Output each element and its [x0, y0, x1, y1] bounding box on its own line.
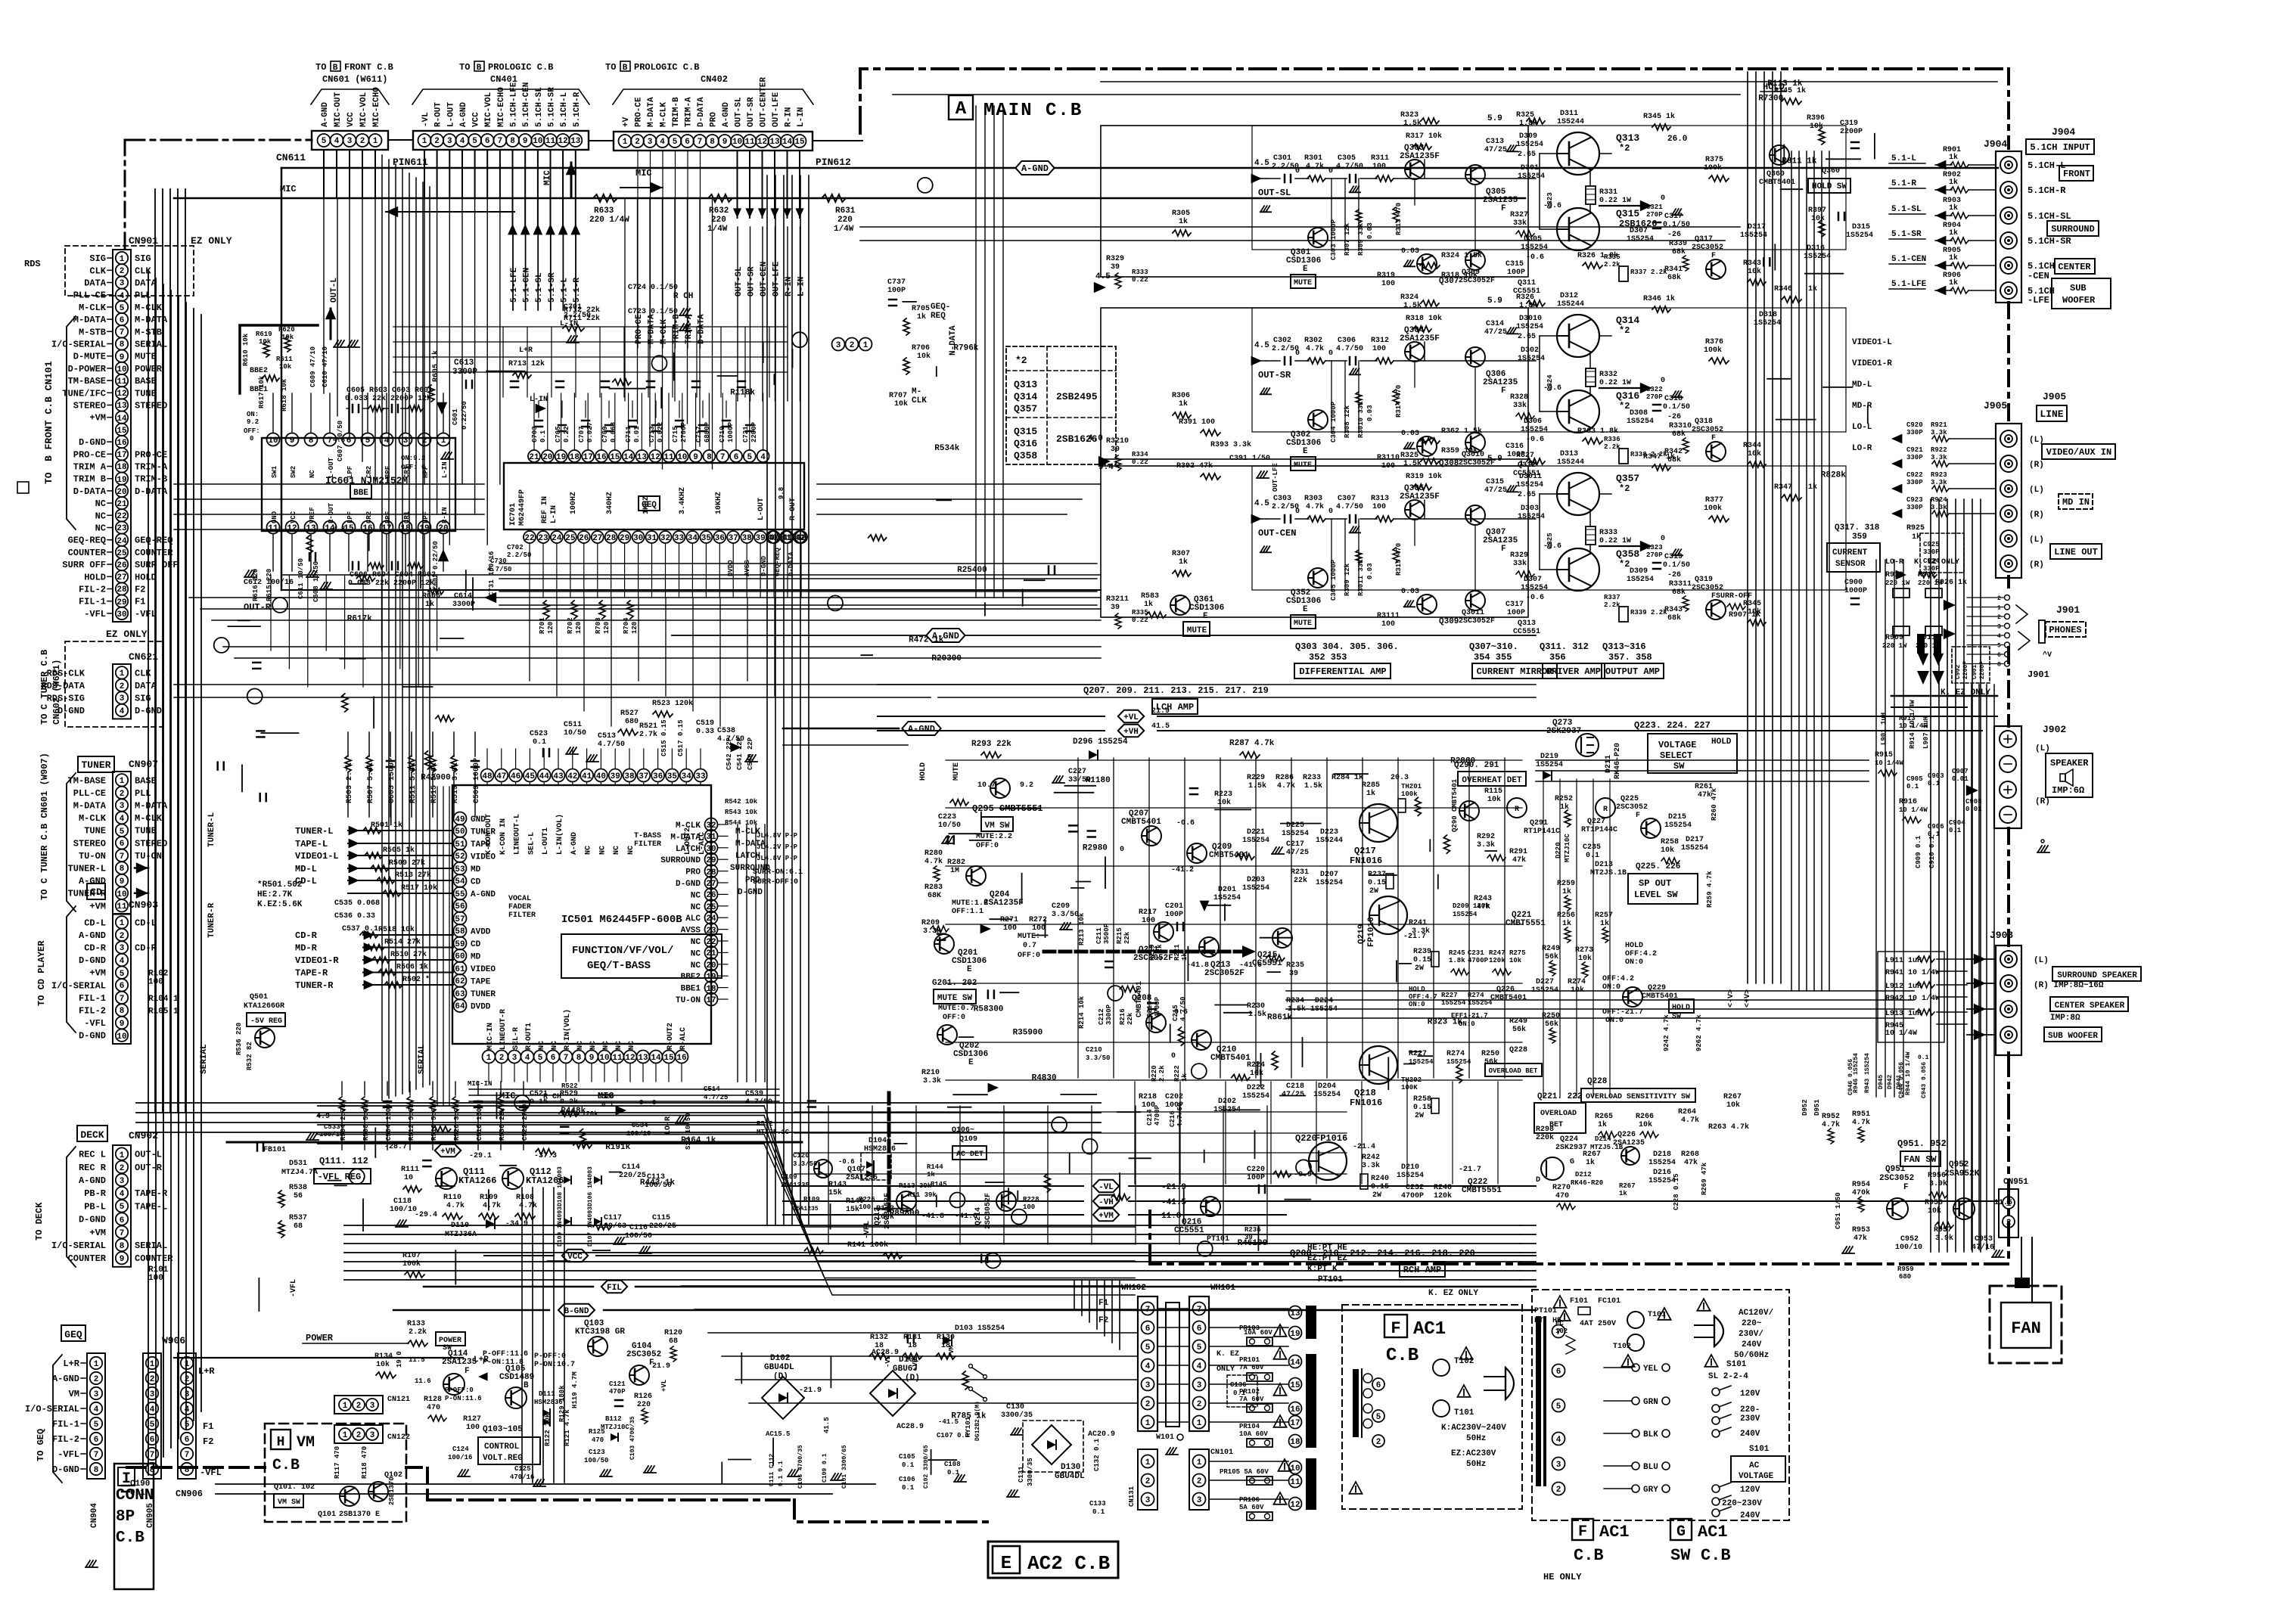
transistor Q216 [1201, 1197, 1220, 1216]
svg-text:R323: R323 [1400, 111, 1418, 120]
svg-text:CD-R: CD-R [135, 943, 157, 954]
svg-text:10 1/4W: 10 1/4W [1875, 759, 1903, 767]
svg-text:PROLOGIC C.B: PROLOGIC C.B [488, 62, 553, 73]
svg-text:Q315: Q315 [1014, 426, 1037, 437]
svg-text:41.5: 41.5 [823, 1417, 831, 1433]
svg-text:100k: 100k [1704, 504, 1722, 513]
svg-text:5.9: 5.9 [1487, 114, 1502, 123]
svg-text:R713 12k: R713 12k [508, 359, 545, 368]
svg-text:<-V>: <-V> [1727, 989, 1735, 1008]
cluster above IC601 resistors [240, 325, 318, 393]
svg-text:-LFE: -LFE [2028, 295, 2049, 306]
svg-text:D317: D317 [1748, 223, 1766, 231]
wire verticals left of amp strips [975, 106, 977, 598]
svg-text:C211: C211 [1095, 927, 1103, 944]
svg-text:HOLD: HOLD [1625, 942, 1643, 950]
svg-text:C201: C201 [1165, 902, 1183, 911]
power transistor Q313 [1557, 132, 1599, 175]
svg-text:R214 10k: R214 10k [1078, 995, 1086, 1029]
svg-text:SURROUND: SURROUND [660, 856, 701, 865]
svg-text:100: 100 [1003, 924, 1017, 933]
texture under IC501 mic [496, 1093, 498, 1119]
svg-text:D942: D942 [1887, 1075, 1894, 1089]
svg-text:R247: R247 [1489, 949, 1506, 957]
svg-text:1k: 1k [1144, 600, 1153, 609]
svg-text:R-IN: R-IN [441, 507, 449, 523]
svg-text:12: 12 [1290, 1501, 1300, 1510]
svg-text:68k: 68k [1672, 588, 1686, 597]
svg-text:R2860: R2860 [1450, 757, 1475, 766]
svg-text:R923: R923 [1931, 471, 1947, 479]
svg-text:2SB1370: 2SB1370 [388, 1477, 396, 1505]
svg-text:R143: R143 [828, 1181, 847, 1189]
svg-text:2: 2 [1197, 1477, 1202, 1486]
svg-text:56k: 56k [1512, 1025, 1526, 1034]
svg-text:A-GND: A-GND [321, 102, 330, 127]
svg-text:3300P: 3300P [452, 601, 475, 609]
svg-text:51: 51 [455, 840, 465, 849]
svg-text:2.2/50: 2.2/50 [507, 551, 531, 559]
svg-text:HOLD: HOLD [1672, 1004, 1690, 1012]
TUNER label [78, 756, 114, 772]
svg-text:R443 1k: R443 1k [640, 1178, 676, 1188]
svg-text:2.2k: 2.2k [1604, 443, 1620, 451]
svg-text:SERIAL: SERIAL [418, 1044, 427, 1074]
svg-text:-VH: -VH [912, 1359, 919, 1371]
svg-text:Q225: Q225 [1620, 795, 1639, 803]
svg-text:FP1016: FP1016 [1315, 1133, 1347, 1144]
svg-text:5: 5 [365, 436, 371, 446]
svg-text:4: 4 [94, 1405, 99, 1414]
svg-text:R359 10k: R359 10k [1441, 446, 1478, 455]
svg-text:C609 47/10: C609 47/10 [309, 346, 317, 387]
svg-text:27: 27 [592, 534, 602, 543]
svg-text:61: 61 [455, 965, 465, 974]
svg-text:D111: D111 [539, 1390, 555, 1398]
svg-text:R544 10k: R544 10k [725, 819, 758, 827]
svg-text:OFF:1.1: OFF:1.1 [952, 908, 983, 916]
svg-text:C601: C601 [452, 408, 459, 425]
svg-text:VCC: VCC [290, 511, 297, 523]
svg-text:220: 220 [837, 216, 853, 225]
svg-text:C613: C613 [454, 359, 474, 368]
svg-text:4: 4 [120, 815, 125, 824]
svg-text:MUTE:: MUTE: [1018, 933, 1040, 941]
svg-text:-0.6: -0.6 [1176, 819, 1195, 828]
svg-text:R317 10k: R317 10k [1406, 132, 1442, 141]
G AC1 SW CB label [1670, 1519, 1692, 1540]
svg-text:D204: D204 [1318, 1082, 1336, 1091]
svg-text:59: 59 [455, 940, 465, 949]
svg-text:R324: R324 [1400, 293, 1418, 302]
svg-text:A-GND: A-GND [722, 102, 731, 127]
svg-text:2W: 2W [1415, 964, 1424, 973]
transistor Q302 [1308, 410, 1328, 430]
svg-text:19.0: 19.0 [396, 1351, 403, 1368]
svg-text:D202: D202 [1218, 1098, 1236, 1106]
svg-text:R346 1k: R346 1k [1643, 294, 1675, 303]
R331 emitter resistor [1586, 186, 1596, 204]
svg-text:C.B: C.B [1701, 1546, 1731, 1565]
svg-text:R943 1S5254: R943 1S5254 [1864, 1053, 1871, 1093]
svg-text:VCC: VCC [472, 112, 481, 127]
svg-text:34: 34 [682, 772, 692, 781]
svg-text:AC1: AC1 [1413, 1319, 1446, 1340]
svg-text:OFF:4.2: OFF:4.2 [1602, 975, 1634, 983]
svg-text:R293 22k: R293 22k [971, 740, 1011, 749]
svg-text:Q317: Q317 [1695, 235, 1713, 244]
svg-text:0: 0 [1171, 1052, 1176, 1060]
svg-text:2SB2495: 2SB2495 [1056, 391, 1098, 402]
svg-text:C614: C614 [454, 592, 472, 601]
wire bundle right verticals [1747, 72, 1748, 983]
svg-text:K-CON OUT: K-CON OUT [485, 814, 493, 855]
connector CN904 [87, 1353, 105, 1479]
svg-text:4: 4 [1197, 1362, 1202, 1371]
svg-text:OVERHEAT DET: OVERHEAT DET [1462, 776, 1522, 785]
svg-text:VIDEO1-R: VIDEO1-R [1852, 359, 1892, 368]
svg-text:HE:PT HE: HE:PT HE [1307, 1244, 1347, 1253]
svg-text:L-IN: L-IN [797, 107, 806, 127]
svg-text:COUNTER: COUNTER [68, 1253, 107, 1264]
svg-text:4.7/50: 4.7/50 [487, 566, 511, 573]
svg-text:C541 22P: C541 22P [736, 737, 744, 770]
svg-text:2SC3052: 2SC3052 [1692, 426, 1723, 434]
svg-text:A-GND: A-GND [79, 1175, 106, 1186]
svg-text:SEL-L: SEL-L [527, 832, 536, 855]
svg-text:R131: R131 [903, 1334, 921, 1342]
svg-text:8: 8 [510, 137, 515, 146]
svg-text:41.5: 41.5 [1151, 722, 1170, 731]
svg-text:7A 60V: 7A 60V [1239, 1396, 1264, 1403]
svg-text:OUT-SL: OUT-SL [735, 97, 744, 127]
svg-text:32: 32 [660, 534, 670, 543]
svg-text:C542 22P: C542 22P [726, 737, 733, 770]
svg-text:C707: C707 [578, 426, 586, 442]
svg-text:(L): (L) [2029, 486, 2044, 495]
svg-text:NC: NC [576, 1041, 585, 1050]
svg-text:WH101: WH101 [1210, 1284, 1235, 1293]
svg-text:6: 6 [120, 840, 125, 849]
svg-text:19: 19 [419, 524, 429, 533]
svg-text:5.1-SR: 5.1-SR [1891, 230, 1922, 239]
svg-text:4.5: 4.5 [1254, 341, 1269, 350]
svg-text:R118k: R118k [730, 388, 755, 397]
svg-text:8: 8 [94, 1466, 99, 1475]
*2 table [1006, 346, 1116, 464]
svg-text:1S5254: 1S5254 [1536, 761, 1563, 769]
svg-text:D-MUTE: D-MUTE [73, 352, 106, 362]
svg-text:15: 15 [663, 1054, 674, 1063]
svg-text:21.9: 21.9 [652, 1362, 670, 1371]
svg-text:C235: C235 [1583, 843, 1601, 852]
svg-text:-VL: -VL [884, 1355, 892, 1368]
svg-text:5.1CH: 5.1CH [2028, 261, 2055, 272]
svg-text:PR102: PR102 [1239, 1388, 1260, 1396]
svg-text:*2: *2 [1619, 401, 1630, 411]
transistor Q354 [1405, 500, 1425, 520]
svg-text:R3111: R3111 [1377, 612, 1400, 620]
svg-text:R250: R250 [1481, 1050, 1499, 1058]
svg-text:-VFL REG.: -VFL REG. [318, 1172, 367, 1182]
svg-text:34: 34 [688, 534, 698, 543]
svg-text:Q313: Q313 [1014, 379, 1037, 390]
svg-text:R617k: R617k [347, 614, 372, 623]
svg-text:LINEOUT-R: LINEOUT-R [499, 1009, 508, 1050]
svg-text:330P: 330P [1906, 454, 1923, 461]
svg-text:A-GND: A-GND [570, 832, 579, 855]
svg-text:5: 5 [185, 1421, 190, 1430]
svg-text:2: 2 [360, 137, 365, 146]
svg-text:5: 5 [472, 137, 477, 146]
svg-text:TU-ON: TU-ON [676, 996, 701, 1005]
svg-text:FUNCTION/VF/VOL/: FUNCTION/VF/VOL/ [572, 945, 673, 957]
svg-text:29: 29 [620, 534, 629, 543]
svg-text:100: 100 [1142, 1101, 1155, 1110]
svg-text:D222: D222 [1247, 1084, 1265, 1092]
svg-text:100: 100 [1372, 503, 1386, 511]
svg-text:LINEOUT-L: LINEOUT-L [514, 814, 522, 855]
svg-text:2SA1235F: 2SA1235F [1400, 334, 1440, 343]
svg-text:R861k: R861k [1267, 1014, 1292, 1023]
svg-text:D313: D313 [1560, 450, 1578, 458]
svg-text:18: 18 [570, 453, 580, 462]
wire A-GND bus [281, 167, 1998, 169]
svg-text:13: 13 [638, 1054, 648, 1063]
svg-text:KTC3198 GR: KTC3198 GR [575, 1327, 625, 1337]
svg-text:Q207. 209. 211. 213. 215. 217.: Q207. 209. 211. 213. 215. 217. 219 [1083, 685, 1269, 696]
wire verticals under IC601 [270, 575, 272, 651]
connector CN905 [143, 1353, 161, 1479]
svg-text:0.6: 0.6 [1174, 1008, 1188, 1017]
svg-text:11.6: 11.6 [415, 1377, 431, 1385]
svg-text:240V: 240V [1742, 1340, 1762, 1349]
svg-text:2: 2 [120, 932, 125, 941]
svg-text:1: 1 [2006, 1200, 2012, 1209]
svg-text:C922: C922 [1906, 471, 1923, 479]
svg-text:39: 39 [1111, 263, 1120, 272]
svg-text:D951: D951 [1813, 1099, 1821, 1116]
svg-text:R392 47k: R392 47k [1176, 461, 1213, 470]
svg-text:1: 1 [120, 669, 125, 678]
transistor Q215 [1272, 928, 1292, 948]
svg-text:19: 19 [556, 453, 566, 462]
svg-text:120: 120 [631, 622, 639, 634]
svg-text:2: 2 [499, 1054, 505, 1063]
svg-text:R: R [1515, 806, 1519, 814]
svg-text:4: 4 [334, 137, 340, 146]
svg-text:NC: NC [628, 1041, 636, 1050]
svg-text:FADER: FADER [508, 903, 531, 911]
svg-text:53: 53 [455, 865, 465, 874]
connector CN906 [178, 1353, 196, 1479]
wire bus under connectors [174, 197, 1525, 200]
svg-text:R347: R347 [1774, 483, 1792, 492]
svg-text:3300/35: 3300/35 [1027, 1458, 1034, 1486]
svg-text:52: 52 [455, 852, 465, 862]
svg-text:18: 18 [117, 463, 127, 472]
svg-text:PLL-CE: PLL-CE [73, 788, 106, 799]
svg-text:TUNE: TUNE [135, 388, 157, 399]
svg-text:7: 7 [94, 1451, 99, 1460]
svg-text:C TUNER C.B: C TUNER C.B [39, 650, 50, 710]
svg-text:M62449FP: M62449FP [518, 489, 527, 526]
svg-text:5.1-CEN: 5.1-CEN [1891, 255, 1926, 264]
wires CN611 down [323, 150, 325, 198]
VM CB dashed box [265, 1424, 406, 1522]
svg-text:8: 8 [576, 1054, 582, 1063]
svg-text:D308: D308 [1630, 409, 1648, 418]
svg-text:R213 10k: R213 10k [1078, 912, 1086, 946]
svg-text:PR106: PR106 [1239, 1496, 1260, 1504]
svg-text:C133: C133 [1089, 1500, 1106, 1508]
svg-text:CC5551: CC5551 [1252, 959, 1282, 968]
svg-text:C132 0.1: C132 0.1 [1093, 1438, 1101, 1471]
svg-text:Q311: Q311 [1518, 279, 1536, 287]
svg-text:R243: R243 [1474, 895, 1492, 903]
svg-text:120V: 120V [1740, 1486, 1760, 1495]
svg-text:LEVEL SW: LEVEL SW [1634, 890, 1678, 900]
svg-text:5: 5 [120, 828, 125, 837]
svg-text:L907 1uH: L907 1uH [1922, 716, 1930, 749]
svg-text:MIC-IN: MIC-IN [468, 1080, 492, 1088]
svg-text:NC: NC [95, 511, 106, 521]
svg-text:1S5254: 1S5254 [1516, 481, 1543, 489]
svg-text:8: 8 [185, 1466, 190, 1475]
svg-text:1S5244: 1S5244 [1557, 300, 1584, 309]
svg-text:C209: C209 [1052, 902, 1070, 911]
svg-text:8: 8 [120, 865, 125, 874]
svg-text:20: 20 [117, 488, 126, 497]
svg-text:R7300: R7300 [1758, 95, 1783, 104]
svg-text:L-OUT1: L-OUT1 [542, 828, 550, 855]
svg-text:D302: D302 [1521, 346, 1539, 355]
svg-text:0.03: 0.03 [1401, 247, 1419, 256]
svg-text:Q227: Q227 [1587, 818, 1605, 826]
svg-text:R285: R285 [1362, 781, 1380, 790]
CONN 8P C.B block [114, 1464, 154, 1589]
svg-text:2700P: 2700P [680, 421, 688, 442]
svg-text:B112: B112 [605, 1415, 622, 1423]
svg-text:C315: C315 [1506, 260, 1524, 269]
svg-text:MUTE: MUTE [1294, 619, 1312, 628]
svg-text:R333: R333 [1599, 529, 1617, 537]
svg-text:10k: 10k [1571, 986, 1584, 995]
wire bottom dense bundle [318, 1105, 764, 1107]
svg-text:MTZJ10C: MTZJ10C [1564, 834, 1571, 862]
svg-text:R20300: R20300 [931, 654, 962, 663]
svg-text:5: 5 [1997, 643, 2001, 650]
svg-text:CR2: CR2 [365, 511, 373, 523]
svg-text:11.8: 11.8 [1161, 1212, 1182, 1221]
transistor Q303 [1405, 160, 1425, 179]
svg-text:4: 4 [760, 453, 766, 462]
svg-text:TUNE/IFC: TUNE/IFC [62, 388, 106, 399]
svg-text:C108: C108 [944, 1461, 961, 1468]
svg-text:OUT-R: OUT-R [244, 602, 272, 613]
svg-text:TAPE-L: TAPE-L [135, 1201, 167, 1212]
svg-text:PB-L: PB-L [84, 1201, 106, 1212]
svg-text:C943 0.056: C943 0.056 [1921, 1062, 1928, 1098]
svg-text:OVERLOAD SENSITIVITY SW: OVERLOAD SENSITIVITY SW [1586, 1093, 1690, 1101]
plug G [1695, 1324, 1714, 1326]
svg-text:F: F [1391, 1319, 1400, 1338]
wire horizontal bundle mid page [189, 597, 1101, 598]
svg-text:SURR-OFF: SURR-OFF [1716, 592, 1752, 601]
svg-text:2SC3052: 2SC3052 [1692, 244, 1723, 252]
svg-text:Q311. 312: Q311. 312 [1540, 641, 1589, 652]
svg-text:F2: F2 [203, 1436, 213, 1447]
svg-text:PIN611: PIN611 [393, 157, 428, 168]
svg-text:TUNER: TUNER [81, 759, 110, 771]
svg-text:33k: 33k [1513, 559, 1527, 568]
svg-text:7: 7 [120, 852, 125, 862]
svg-text:16: 16 [117, 439, 126, 448]
svg-text:R391 100: R391 100 [1179, 418, 1215, 427]
svg-text:MUTE: MUTE [135, 352, 157, 362]
svg-text:R318 10k: R318 10k [1406, 314, 1442, 323]
svg-text:1k: 1k [1949, 278, 1958, 287]
svg-text:+VM: +VM [89, 901, 106, 911]
svg-text:24: 24 [706, 914, 716, 924]
svg-text:R325: R325 [1400, 452, 1418, 460]
svg-text:Q951: Q951 [1885, 1165, 1906, 1174]
svg-text:3: 3 [120, 802, 125, 811]
svg-text:VOLT.REG: VOLT.REG [483, 1454, 523, 1463]
svg-text:1k: 1k [1949, 178, 1958, 187]
svg-text:5.1-LFE: 5.1-LFE [1891, 280, 1927, 289]
svg-text:S101: S101 [1749, 1445, 1770, 1454]
svg-text:2: 2 [1997, 614, 2001, 621]
svg-text:M-CLK: M-CLK [79, 303, 107, 313]
svg-text:C904: C904 [1949, 819, 1965, 827]
ground sym [2038, 846, 2042, 852]
svg-text:R523 120k: R523 120k [652, 699, 693, 708]
svg-text:C702: C702 [507, 544, 524, 551]
svg-text:100/50: 100/50 [625, 1231, 652, 1241]
connector CN401 [413, 131, 589, 150]
svg-text:E: E [1001, 1554, 1011, 1574]
svg-text:39: 39 [1111, 446, 1120, 454]
svg-text:4.7k: 4.7k [1277, 781, 1295, 790]
svg-text:R610 10k: R610 10k [242, 333, 250, 366]
svg-text:21: 21 [529, 453, 539, 462]
svg-text:C520: C520 [598, 1093, 614, 1101]
svg-text:3: 3 [1145, 1496, 1151, 1505]
svg-text:1k: 1k [927, 1171, 935, 1178]
svg-text:R307: R307 [1172, 550, 1190, 558]
svg-text:PRO: PRO [685, 868, 701, 877]
svg-text:CLK: CLK [135, 668, 151, 678]
+VL +VH flags [1118, 710, 1144, 722]
svg-text:0.01: 0.01 [633, 426, 641, 442]
svg-text:120k: 120k [1434, 1191, 1452, 1200]
svg-text:3: 3 [512, 1054, 517, 1063]
svg-text:1S5254: 1S5254 [1521, 244, 1548, 252]
svg-text:C703: C703 [531, 426, 539, 442]
svg-text:C391 1/50: C391 1/50 [1229, 454, 1270, 463]
wire bundle mid verticals [766, 175, 768, 1225]
svg-text:Q220: Q220 [1295, 1133, 1317, 1144]
svg-text:R331: R331 [1599, 188, 1617, 197]
svg-text:B: B [623, 64, 628, 73]
svg-text:1: 1 [486, 1054, 492, 1063]
svg-text:F1: F1 [1098, 1299, 1109, 1308]
svg-text:D224: D224 [1315, 997, 1333, 1005]
border bottom segment left of AC2 [427, 1498, 794, 1501]
svg-text:ON:0: ON:0 [1625, 958, 1643, 967]
svg-text:5A 60V: 5A 60V [1239, 1504, 1264, 1511]
